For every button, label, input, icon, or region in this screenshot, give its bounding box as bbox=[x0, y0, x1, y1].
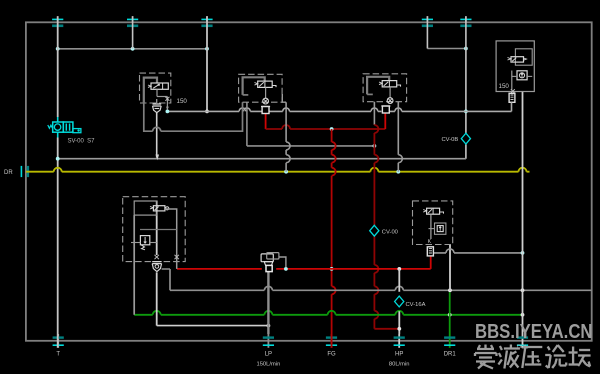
valve B nozzle cartridge bbox=[261, 107, 270, 114]
valve A reducing valve symbol bbox=[148, 83, 168, 89]
junction dot (399.3,268.9) bbox=[397, 267, 401, 271]
junction dot (286.1,171.7) bbox=[284, 170, 288, 174]
wire top manifold y48 left bbox=[58, 48, 207, 50]
junction dot (374.4,145.9) bbox=[373, 144, 377, 148]
valve E spring check cartridge bbox=[152, 262, 161, 272]
valve D inner rect bbox=[515, 49, 532, 65]
valve A drain branch bbox=[157, 89, 169, 110]
valve C supply loop bbox=[367, 77, 389, 95]
valve E relief valve symbol bbox=[131, 236, 157, 250]
bottom terminal T bbox=[53, 334, 64, 348]
wire valve E to x177 drop bbox=[165, 209, 177, 269]
wire drain header y158.7 bbox=[58, 158, 466, 160]
valve C nozzle cartridge bbox=[381, 106, 390, 113]
valve E outer box bbox=[123, 197, 186, 262]
svg-text:80L/min: 80L/min bbox=[389, 362, 410, 368]
valve D nozzle cartridge bbox=[509, 93, 515, 102]
svg-text:DR: DR bbox=[4, 170, 13, 176]
valve B supply loop bbox=[243, 77, 265, 95]
valve F nozzle cartridge bbox=[427, 247, 433, 256]
junction dot (207,111.4) bbox=[205, 110, 209, 114]
pilot check valve at LP bbox=[261, 253, 279, 272]
wire HP riser x399.3 bbox=[398, 269, 400, 334]
wire valve D internal drop bbox=[511, 62, 513, 90]
wire vertical x427.4 bbox=[426, 16, 428, 48]
wire pilot line y111.4 bbox=[167, 108, 511, 111]
valve E inner enclosure line bbox=[140, 229, 177, 231]
wire y325.6 line bbox=[157, 325, 269, 327]
wire main spool line x156.7 bbox=[156, 201, 158, 326]
wire LP riser x268.4 bbox=[267, 272, 269, 334]
wire DOL riser x522.5 bbox=[522, 92, 524, 335]
svg-text:150: 150 bbox=[177, 98, 188, 105]
check point CV-16A diamond bbox=[395, 296, 404, 307]
junction dot (207,48.8) bbox=[205, 47, 209, 51]
check point CV-0B diamond bbox=[461, 133, 470, 144]
svg-text:DR1: DR1 bbox=[444, 352, 457, 358]
svg-text:FG: FG bbox=[327, 352, 336, 358]
valve E inner rect bbox=[134, 201, 157, 215]
valve C shuttle valve bbox=[387, 87, 393, 104]
valve A check cartridge bbox=[153, 104, 162, 113]
bottom terminal FG bbox=[326, 334, 337, 348]
junction dot (522.5,252.9) bbox=[521, 251, 525, 255]
valve B solenoid pilot valve symbol bbox=[255, 81, 277, 87]
watermark chinese text bbox=[475, 345, 591, 369]
valve F solenoid symbol bbox=[423, 208, 443, 214]
svg-text:SV-00 S7: SV-00 S7 bbox=[68, 138, 96, 144]
junction dot (57.7,48.8) bbox=[56, 47, 60, 51]
junction dot (465.9,111.4) bbox=[464, 110, 468, 114]
wire valve F internal drop bbox=[430, 214, 432, 239]
svg-text:150: 150 bbox=[499, 83, 510, 90]
bottom terminal DR1 bbox=[444, 334, 455, 348]
svg-text:150L/min: 150L/min bbox=[256, 362, 280, 368]
junction dot (285.9,268.9) bbox=[284, 267, 288, 271]
valve A outer box bbox=[140, 73, 171, 103]
valve A supply loop bbox=[144, 78, 243, 132]
wire valve C drain drop x398.3 bbox=[398, 102, 402, 172]
wire red LP header y268.9 bbox=[177, 268, 431, 270]
junction dot (399.3,328.8) bbox=[397, 327, 401, 331]
wire valve E tank stub bbox=[162, 268, 170, 270]
junction dot (450,290.3) bbox=[448, 288, 452, 292]
valve D outer box bbox=[496, 41, 534, 92]
wire valve E tank drop x170 bbox=[169, 269, 171, 290]
valve E solenoid symbol bbox=[150, 206, 169, 211]
solenoid valve SV-00 bbox=[48, 117, 81, 138]
svg-text:CV-0B: CV-0B bbox=[442, 137, 459, 143]
junction dot (132.6,48.8) bbox=[131, 47, 135, 51]
wire red header y129 bbox=[266, 125, 386, 129]
wire vertical CV-0B drop x465.9 bbox=[465, 16, 467, 159]
svg-text:BBS.IYEYA.CN: BBS.IYEYA.CN bbox=[475, 320, 593, 343]
wire LP check pilot stub bbox=[279, 257, 286, 267]
svg-text:T: T bbox=[56, 352, 60, 358]
wire valve A check to drain header bbox=[156, 99, 158, 104]
wire valve-B left drop x246.9 bbox=[246, 102, 248, 146]
junction dot (167.4,111.4) bbox=[166, 110, 170, 114]
wire valve B drain drop x286.1 bbox=[286, 102, 290, 172]
junction dot (331.6,129) bbox=[330, 127, 334, 131]
svg-text:LP: LP bbox=[265, 352, 272, 358]
valve C solenoid pilot valve symbol bbox=[379, 81, 401, 87]
left terminal DR ticks bbox=[21, 166, 28, 177]
wire vertical T-line x57.7 full height bbox=[57, 16, 59, 348]
svg-text:K: K bbox=[428, 239, 432, 245]
wire red FG line x331.6 bbox=[332, 129, 336, 348]
wire dark red jog y328.8 bbox=[374, 328, 399, 330]
valve D pressure valve symbol bbox=[512, 71, 532, 80]
svg-text:CV-16A: CV-16A bbox=[406, 302, 426, 308]
junction dot (331.6,268.9) bbox=[330, 267, 334, 271]
wire green DR1 riser bbox=[449, 292, 451, 334]
junction dot (522.5,314.8) bbox=[521, 313, 525, 317]
valve A restrictor x-mark bbox=[165, 97, 169, 101]
wire valve F pilot y252.9 bbox=[433, 249, 522, 253]
junction dot (57.7,158.7) bbox=[56, 157, 60, 161]
valve C outer box bbox=[363, 74, 407, 102]
wire valve E left drop x134 bbox=[133, 215, 135, 315]
wire vertical x207 bbox=[206, 16, 208, 111]
junction dot (268.4,325.6) bbox=[267, 324, 271, 328]
wire dark red pilot line x374.4 bbox=[374, 125, 378, 329]
wire red riser to valve F bbox=[430, 256, 432, 269]
wire valve D nozzle to pilot line bbox=[511, 102, 513, 111]
wire yellow DR line bbox=[26, 168, 530, 172]
wire top manifold y48 right bbox=[427, 48, 466, 50]
top terminal 3 at x=207.0 bbox=[201, 16, 212, 26]
svg-text:CV-00: CV-00 bbox=[382, 229, 398, 235]
check point CV-00 diamond bbox=[370, 225, 379, 236]
valve E x-mark on drop bbox=[175, 255, 179, 259]
wire line y145.9 bbox=[247, 145, 375, 147]
arrow junction at (157.3,158.7) bbox=[156, 155, 160, 161]
valve F inner valve box bbox=[429, 223, 446, 234]
wire valve A check drop x156.7 bbox=[156, 113, 158, 158]
valve B shuttle valve bbox=[263, 87, 269, 104]
bottom terminal LP bbox=[263, 334, 274, 348]
valve D solenoid symbol bbox=[508, 57, 527, 62]
wire red riser to valve C bbox=[384, 113, 386, 129]
junction dot (398.3,171.7) bbox=[396, 170, 400, 174]
wire valve F DR1 drop x450 bbox=[449, 245, 451, 292]
wire red drop from valve B bbox=[265, 114, 267, 130]
valve D restrictor x-mark bbox=[511, 89, 515, 93]
junction dot (449.7,314.8) bbox=[448, 313, 452, 317]
wire valve C gray left drop x374.4 bbox=[373, 102, 375, 125]
bottom terminal HP bbox=[394, 334, 405, 348]
top terminal 5 at x=465.9 bbox=[460, 16, 471, 26]
junction dot (522.5,290.3) bbox=[521, 288, 525, 292]
valve E x-mark on spool bbox=[155, 255, 159, 259]
wire vertical x132.6 bbox=[132, 16, 134, 49]
valve F outer box bbox=[413, 201, 453, 245]
svg-text:HP: HP bbox=[395, 352, 403, 358]
valve B outer box bbox=[239, 74, 283, 102]
wire valve B drain drop jog bbox=[282, 94, 286, 102]
wire green line y314.8 bbox=[134, 311, 522, 315]
junction dot (465.9,48.5) bbox=[464, 47, 468, 51]
bottom terminal DOL bbox=[517, 334, 528, 348]
wire return header y290.3 bbox=[170, 286, 592, 290]
top terminal 2 at x=132.6 bbox=[127, 16, 138, 26]
top terminal 4 at x=427.4 bbox=[422, 16, 433, 26]
top terminal 1 at x=57.7 bbox=[52, 16, 63, 26]
